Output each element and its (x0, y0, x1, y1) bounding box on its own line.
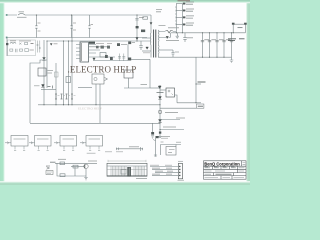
opto PC951 (166, 88, 175, 97)
diode D954 (183, 24, 186, 26)
label 12V (238, 27, 243, 29)
zener drop ZD952 (152, 123, 154, 132)
title block row lines (204, 166, 247, 175)
capacitor C952 (201, 40, 209, 42)
node label text (198, 105, 203, 107)
wire cn3 (155, 171, 178, 173)
wire cn1 labels (150, 164, 172, 166)
capacitor C921 (139, 41, 142, 50)
wire rail drop B (68, 41, 70, 105)
ground q961 (84, 178, 88, 181)
resistor row R931 (55, 94, 57, 99)
pcb frame (107, 163, 147, 176)
resistor R904 (20, 49, 23, 51)
wire AC line N (7, 37, 148, 39)
wire bulk cap drop (46, 41, 48, 88)
fuse F901 (18, 13, 25, 15)
wire relay left (78, 87, 92, 89)
ladder rung 4 (176, 23, 182, 25)
labels above R921 row (96, 43, 112, 45)
diode D902 label (54, 43, 58, 45)
svg-text:ELECTRO HELP: ELECTRO HELP (78, 107, 102, 111)
capacitor C951 label (187, 37, 194, 39)
label R958 (141, 84, 148, 86)
mini wire label (176, 141, 181, 143)
label 5V (198, 81, 206, 83)
ladder rung 1 (176, 3, 182, 5)
relay inner (94, 77, 97, 80)
transistor Q902 (41, 85, 44, 88)
pcb hatch right (134, 166, 145, 176)
sub arrow in (46, 166, 50, 169)
pcb core slit (128, 168, 130, 177)
title block column lines (213, 161, 242, 179)
node AC input L (6, 14, 8, 16)
resistor RV901 (25, 43, 28, 45)
fuse F901 value label (17, 12, 27, 17)
resistor row R932 (61, 94, 63, 99)
TL431 U951 (158, 97, 161, 100)
resistor R922 (101, 46, 104, 49)
pcb inner box (121, 170, 126, 175)
ladder rung 2 (176, 9, 182, 11)
IC U901 pin stubs left (76, 45, 80, 59)
capacitor CX3 label (91, 24, 94, 26)
pcb note text (105, 151, 123, 153)
diode D955 sublabel (166, 40, 179, 42)
connector pin3 (179, 172, 181, 173)
relay arrow (105, 78, 108, 81)
transistor Q951 (158, 86, 161, 89)
capacitor C954 (215, 40, 223, 42)
startup box U902 (38, 68, 46, 76)
FL2 input symbol (29, 142, 35, 144)
capacitor C956 (230, 40, 233, 42)
wire enclosure left (30, 60, 47, 123)
diode D955 label (168, 27, 179, 29)
mini node label (161, 137, 170, 139)
wire rail drop D (55, 63, 57, 105)
box sub note text (47, 172, 52, 174)
wire sub label end (88, 160, 97, 162)
wire main output bus (171, 32, 245, 34)
mini wire y144 (161, 144, 182, 146)
ground ZD952 (151, 136, 154, 138)
zener ZD951 (158, 120, 162, 123)
lamp end cap (141, 147, 143, 151)
small box aux (66, 77, 71, 83)
wire cn4 (152, 174, 178, 176)
wire y119 stub (160, 120, 180, 124)
component cluster marks (48, 86, 53, 89)
label primary bottom (143, 52, 150, 54)
diode D923 dark (128, 58, 131, 61)
capacitor C951 (183, 33, 186, 42)
node label box 3V3 (197, 104, 204, 108)
capacitor C910 label (139, 17, 144, 19)
wire bridge to bulk (43, 40, 45, 57)
title block frame (204, 161, 247, 179)
capacitor C959 label (175, 51, 179, 53)
capacitor C959 (172, 50, 175, 57)
wire cn3 labels (155, 170, 173, 172)
wire sub left drop (57, 163, 86, 176)
wire fb drop (149, 59, 151, 88)
ladder winding bumps (175, 6, 178, 26)
transformer T901 primary winding (149, 30, 152, 58)
IC U901 PWM (80, 42, 89, 62)
capacitor CX2 label (73, 23, 76, 30)
wire AC line L top (7, 14, 152, 16)
resistor R961 label (58, 158, 66, 160)
node AC input N (6, 37, 8, 39)
wire opto right drop (175, 95, 178, 103)
diode D904 on drop (150, 23, 152, 25)
label fb tail (163, 126, 176, 128)
ground mini1 (154, 155, 157, 156)
ground secondary (230, 57, 234, 62)
transistor Q901 mark (93, 58, 95, 60)
diode D953 (183, 16, 186, 18)
wire sub main (55, 162, 97, 164)
mini label w (161, 141, 164, 143)
wire opto left (160, 89, 166, 91)
connector pin4 (179, 175, 181, 176)
connector CN951 (178, 164, 182, 179)
diode D903 mark (136, 38, 138, 40)
opto label (165, 112, 178, 114)
connector pin1 (179, 166, 181, 167)
inductor L901 (10, 42, 16, 43)
component dark top IC (89, 42, 95, 44)
wire 3V stub (196, 102, 201, 104)
wire cn2 (152, 168, 178, 170)
wire q902 (41, 89, 56, 91)
resistor row R934 (71, 94, 73, 99)
label Q902 (34, 85, 40, 87)
label C957 dark (228, 39, 236, 41)
capacitor C953 (208, 40, 216, 42)
filter module FL4 box (86, 136, 103, 147)
box aux2 (124, 70, 133, 78)
label C958 dark (239, 38, 245, 40)
capacitor C910 top (135, 15, 138, 41)
wire relay drop (95, 84, 97, 105)
note text under FL4 (87, 152, 96, 154)
relay box K901 (92, 74, 104, 84)
wire snubber left (142, 37, 151, 39)
wire bulk drop (43, 57, 45, 105)
capacitor C955 (222, 40, 230, 42)
diode D zap (19, 43, 21, 45)
diode D956 (166, 36, 168, 38)
FL1 input symbol (5, 142, 11, 144)
wire cap drop 5 (231, 33, 233, 57)
capacitor CX1 label (38, 23, 41, 31)
transformer T901 label (156, 10, 166, 26)
mini box drop (175, 145, 177, 147)
diode D925 (128, 42, 131, 45)
pcb dimension line (108, 160, 146, 162)
pcb label below (136, 178, 147, 180)
wire cn1 (150, 166, 178, 168)
FL1 label (14, 138, 26, 140)
wire cap drop 4 (223, 33, 225, 57)
gate resistor box R925 (100, 53, 106, 58)
resistor R963 (73, 165, 78, 168)
wire rail to node box (160, 107, 197, 109)
wire aux to fb (131, 58, 150, 60)
FL2 pins (38, 146, 49, 151)
connector pin2 (179, 169, 181, 170)
wire mid lamp row (116, 148, 143, 150)
diode D925 label (132, 42, 135, 44)
transistor Q961 bar (84, 165, 86, 169)
resistor R951 (157, 92, 164, 94)
FL3 input symbol (54, 142, 60, 144)
diode D952 (183, 10, 186, 12)
ground under ladder (176, 33, 179, 39)
ladder rung 3 (176, 16, 182, 18)
resistor R957 dark (159, 132, 161, 134)
bridge rectifier BD901 (37, 41, 41, 53)
title block small text (205, 163, 246, 178)
component on fb rail (159, 111, 162, 114)
label filter row2 (30, 49, 34, 51)
capacitor C910 polarity blob (136, 26, 139, 28)
resistor R962 (60, 174, 65, 177)
wire q-drop (127, 44, 129, 60)
secondary ladder rails (176, 4, 182, 33)
pcb bottom bold (107, 175, 147, 177)
IC U901 pin stubs right (89, 45, 129, 61)
wire cap drop 2 (209, 33, 211, 57)
lamp symbol (117, 148, 119, 151)
wire relay drop2 (99, 84, 101, 123)
resistor R921 (96, 46, 99, 49)
wire rail drop C (71, 15, 73, 105)
pcb mid line (107, 168, 147, 170)
component D922 (105, 55, 108, 58)
wire fb horiz (150, 87, 160, 89)
jumper bracket top right (233, 24, 245, 33)
zener ZD952 body (151, 132, 154, 135)
wire fb return (177, 102, 196, 104)
opto PC901 block (25, 49, 29, 52)
wire rail drop A (63, 41, 65, 105)
inductor L901 label (10, 40, 31, 42)
wire cn4 labels (152, 173, 172, 175)
diode D902 (50, 44, 52, 46)
wire fb tail (160, 129, 184, 131)
wire 5V stub (196, 83, 201, 85)
wire sec tap y50 (158, 49, 173, 51)
FL3 pins (63, 146, 74, 151)
IC U901 inner bar (80, 43, 82, 61)
filter module FL1 box (11, 136, 28, 147)
diode D952 label (186, 9, 194, 11)
wire q961 down (85, 169, 87, 178)
wire sec to bus (158, 31, 176, 33)
wire sub mid (71, 166, 84, 168)
pcb hatch left (111, 166, 126, 176)
mini box U952 (166, 147, 176, 156)
wire cap drop 1 (202, 33, 204, 57)
diode D901 polarity mark (42, 58, 45, 61)
filter module FL2 box (35, 136, 52, 147)
capacitor CX1 (35, 15, 37, 38)
mini dark node (156, 136, 159, 138)
transistor Q961 (84, 164, 88, 168)
capacitor CX3 (88, 15, 90, 38)
FL2 label (37, 138, 49, 140)
wire B+ rail (47, 40, 151, 42)
diode D951 label (186, 2, 194, 4)
label ladder top (178, 0, 191, 2)
wire cap drop 3 (216, 33, 218, 57)
wire primary gnd bus (38, 104, 160, 106)
FL4 input symbol (80, 142, 86, 144)
startup label (48, 71, 54, 74)
wire aux2 bottom (124, 78, 150, 88)
resistor row R933 (66, 94, 68, 99)
wire filter feed (6, 38, 8, 57)
wire sgnd drop (195, 57, 197, 103)
mini circuit rail2 (160, 145, 162, 156)
connector label bottom (178, 179, 185, 181)
mini arrow (153, 140, 156, 141)
svg-text:.ELECTRO HELP: .ELECTRO HELP (68, 65, 137, 75)
label y119 (176, 117, 185, 119)
resistor row labels (58, 95, 76, 97)
wire fb rail (159, 85, 161, 136)
wire chassis line (30, 122, 160, 124)
wire secondary ground bus (158, 56, 231, 58)
diode D953 label (186, 16, 194, 18)
transformer T901 core (154, 30, 156, 58)
lamp label (129, 146, 139, 148)
wire sub drop2 (74, 167, 76, 177)
resistor R961 (60, 162, 65, 165)
capacitor C903 (16, 49, 17, 52)
jumper pin left (232, 23, 235, 25)
snubber dark blob (141, 30, 145, 33)
FL4 pins (89, 146, 100, 151)
pcb core dark (127, 167, 131, 177)
component box on rail (55, 72, 59, 77)
wire cn2 labels (152, 167, 172, 169)
FL3 label (63, 138, 75, 140)
mini circuit rail1 (155, 138, 157, 157)
diode D924 (117, 43, 120, 46)
FL4 label (89, 138, 101, 140)
opto PC951 inner2 (172, 94, 174, 96)
diode D954 label (186, 23, 194, 25)
EMI filter box outline (8, 40, 36, 56)
wire sec lower diode (158, 33, 170, 38)
sub label vcc (50, 161, 56, 163)
FL1 pins (14, 146, 25, 151)
resistor R923 (107, 46, 110, 49)
mini box label (168, 149, 175, 152)
wire primary bottom (142, 50, 151, 52)
ground fb rail (159, 136, 162, 137)
pcb top line (107, 165, 147, 167)
filter module FL3 box (60, 136, 77, 147)
diode D924 label (121, 44, 127, 46)
node filter junction (6, 43, 8, 45)
wire HV to transformer (150, 15, 152, 30)
resistor R910 (143, 17, 148, 19)
jumper pin right (244, 23, 247, 25)
opto PC951 inner (168, 90, 170, 92)
connector label top (178, 160, 183, 162)
capacitor CY row marks (31, 43, 34, 45)
diode D955 main rect (166, 31, 173, 33)
diode D951 (183, 3, 186, 5)
transformer T901 secondary winding (157, 30, 160, 58)
box sub note (46, 171, 53, 175)
diode D921 (146, 47, 149, 49)
capacitor CX2 (70, 15, 72, 38)
capacitor C924 (118, 54, 125, 62)
resistor R902 (10, 49, 13, 51)
